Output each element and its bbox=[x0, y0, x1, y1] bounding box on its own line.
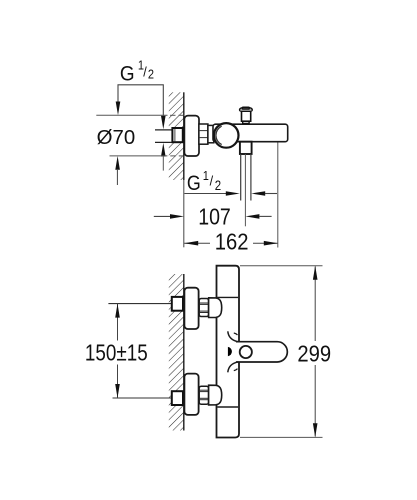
svg-text:299: 299 bbox=[297, 340, 331, 367]
node lower wing bbox=[228, 362, 239, 373]
svg-text:1: 1 bbox=[203, 168, 209, 183]
dimension G1/2 outlet label bbox=[184, 168, 277, 196]
wall (hatched) bbox=[169, 92, 184, 180]
node lever marker bbox=[228, 347, 232, 356]
wire hose nipple lines bbox=[240, 154, 242, 201]
node spout (stadium) bbox=[236, 342, 287, 362]
node upper wing bbox=[228, 331, 239, 342]
node upper square fitting bbox=[172, 297, 183, 311]
node collar bbox=[208, 125, 214, 142]
node union nut bbox=[199, 124, 208, 144]
dimension D70 bbox=[96, 115, 183, 185]
svg-text:/: / bbox=[143, 64, 147, 80]
svg-text:2: 2 bbox=[215, 178, 221, 193]
node concealed square fitting bbox=[172, 128, 182, 142]
node knob (top view) bbox=[240, 346, 252, 358]
dimension 299 bbox=[240, 266, 331, 438]
svg-text:150±15: 150±15 bbox=[85, 341, 148, 366]
node upper flange bbox=[184, 288, 198, 329]
wire outlet centre extension bbox=[244, 154, 246, 226]
wire lower supply line bbox=[113, 397, 172, 399]
node diverter knob bbox=[240, 107, 253, 123]
dimension 107 bbox=[154, 204, 272, 230]
dimension 162 bbox=[184, 143, 278, 255]
svg-text:2: 2 bbox=[148, 67, 154, 82]
dimension 150+-15 bbox=[85, 304, 148, 398]
wall (hatched) bbox=[169, 274, 184, 431]
node lower union nut bbox=[199, 386, 208, 404]
svg-text:G: G bbox=[187, 171, 201, 195]
node mixer body (top view) bbox=[217, 266, 240, 438]
node thermostat knob circle bbox=[214, 123, 239, 148]
node lower inlet dome bbox=[209, 385, 222, 405]
svg-text:107: 107 bbox=[198, 204, 231, 230]
node upper union nut bbox=[199, 299, 208, 317]
svg-text:/: / bbox=[210, 173, 214, 189]
node lower square fitting bbox=[172, 391, 183, 405]
node mixer body (side) bbox=[213, 124, 288, 142]
wire wall face / extension line bbox=[183, 92, 185, 180]
svg-text:162: 162 bbox=[215, 228, 249, 255]
node wall flange bbox=[184, 116, 199, 156]
wire wall face line bbox=[183, 274, 185, 431]
node supply pipe bbox=[155, 131, 173, 142]
node lower flange bbox=[184, 374, 198, 415]
svg-text:G: G bbox=[120, 63, 135, 86]
dimension G1/2 top bracket bbox=[116, 58, 166, 129]
svg-text:Ø70: Ø70 bbox=[97, 127, 136, 149]
dimension pipe G1/2 lower arrow bbox=[161, 143, 166, 157]
wire upper supply line bbox=[108, 303, 171, 305]
node upper inlet dome bbox=[209, 298, 222, 318]
node shower outlet connector bbox=[240, 142, 252, 154]
